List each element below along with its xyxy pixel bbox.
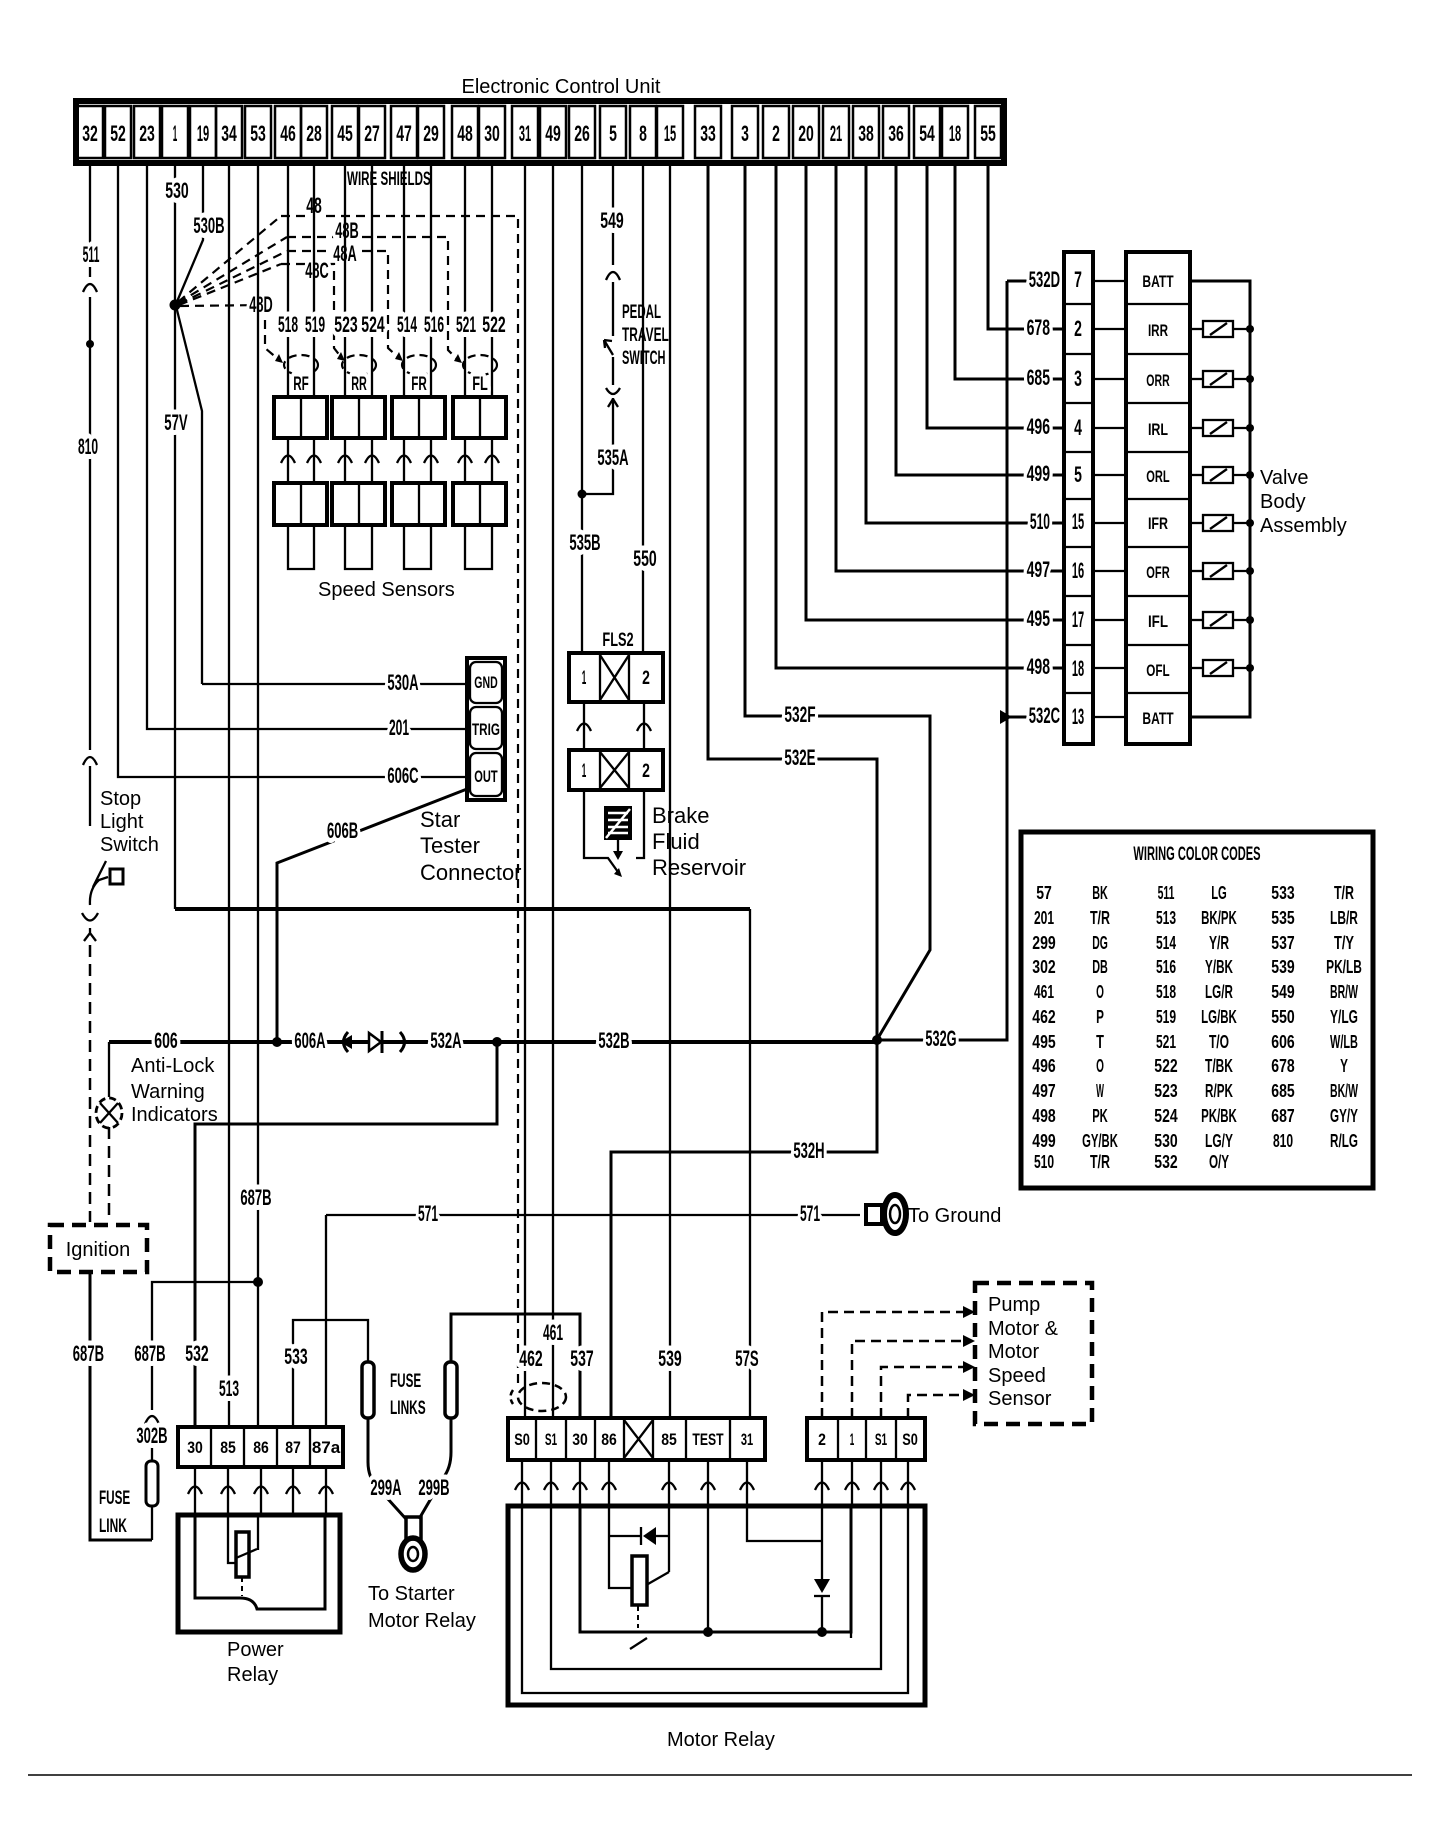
wire 533 from power relay 87 to fuse link 1	[293, 1320, 368, 1427]
svg-text:26: 26	[574, 121, 590, 146]
svg-text:FUSE: FUSE	[390, 1371, 421, 1392]
wire 85 into coil	[228, 1515, 236, 1563]
power relay internal wires with connector arrows	[188, 1467, 333, 1515]
svg-text:FLS2: FLS2	[602, 630, 633, 651]
svg-text:513: 513	[219, 1376, 239, 1401]
svg-text:549: 549	[600, 208, 623, 233]
svg-text:LG/Y: LG/Y	[1205, 1131, 1233, 1151]
svg-text:RR: RR	[351, 374, 367, 395]
svg-text:LG/BK: LG/BK	[1201, 1007, 1237, 1027]
dashed wire pump S0 to pump motor box	[908, 1395, 967, 1418]
junction dot 532G on bus	[872, 1035, 882, 1045]
dashed wire pump 2 to pump motor box	[822, 1312, 967, 1418]
svg-text:RF: RF	[293, 374, 309, 395]
shield ring FR	[402, 355, 436, 375]
shield ring on S0/S1 wires	[518, 1383, 566, 1411]
svg-text:Speed Sensors: Speed Sensors	[318, 579, 455, 601]
sensor connector RF lower	[274, 483, 327, 525]
svg-text:Electronic Control Unit: Electronic Control Unit	[462, 76, 661, 98]
svg-text:687B: 687B	[134, 1341, 165, 1366]
sensor connector FL upper	[453, 397, 506, 438]
svg-text:S0: S0	[514, 1430, 530, 1449]
svg-text:23: 23	[139, 121, 155, 146]
wire 685 from pin 18 to valve pin 3	[955, 163, 1064, 379]
junction dot diode on contact bus	[817, 1627, 827, 1637]
svg-text:532E: 532E	[784, 745, 815, 770]
svg-text:PEDAL: PEDAL	[622, 302, 661, 323]
wire 539 from pin 15 to motor relay 85	[669, 163, 671, 1418]
wire 530A branch diagonal from splice	[176, 306, 202, 684]
svg-text:R/PK: R/PK	[1205, 1081, 1233, 1101]
svg-text:516: 516	[424, 312, 444, 337]
wire 31 link to pump node	[747, 1506, 822, 1541]
fuse link F2	[445, 1362, 457, 1418]
svg-text:516: 516	[1156, 957, 1176, 977]
svg-text:IFR: IFR	[1148, 514, 1168, 533]
ECU pin cells	[77, 106, 1001, 158]
arrowhead pump 2	[963, 1306, 975, 1318]
motor relay S1 link to pump S1	[551, 1506, 881, 1669]
wire 498 from pin 2 to valve pin 18	[776, 163, 1064, 668]
coil armature	[648, 1572, 669, 1584]
svg-text:513: 513	[1156, 908, 1176, 928]
svg-text:IFL: IFL	[1148, 612, 1168, 631]
svg-text:BR/W: BR/W	[1330, 982, 1358, 1002]
svg-text:FR: FR	[411, 374, 427, 395]
svg-text:T/R: T/R	[1334, 883, 1354, 903]
svg-text:15: 15	[664, 121, 676, 146]
inline connector pair on bus	[340, 1035, 352, 1049]
svg-text:524: 524	[361, 312, 385, 337]
wire 86 into coil top	[257, 1515, 259, 1550]
svg-text:678: 678	[1271, 1056, 1294, 1076]
svg-text:687B: 687B	[73, 1341, 104, 1366]
svg-text:Indicators: Indicators	[131, 1104, 218, 1126]
shield fan dashed rays from splice	[178, 216, 287, 306]
svg-text:OFL: OFL	[1146, 661, 1169, 680]
svg-text:Y/LG: Y/LG	[1330, 1007, 1358, 1027]
star tester connector box	[467, 658, 505, 800]
svg-text:550: 550	[1271, 1007, 1294, 1027]
svg-text:3: 3	[741, 121, 749, 146]
svg-text:S0: S0	[902, 1430, 918, 1449]
table column 1	[1032, 883, 1118, 1172]
svg-text:Power: Power	[227, 1639, 284, 1661]
svg-text:31: 31	[741, 1430, 753, 1449]
532C arrow marker	[1000, 710, 1012, 724]
connector arrow on 549	[606, 272, 620, 280]
svg-text:Anti-Lock: Anti-Lock	[131, 1055, 215, 1077]
svg-text:532B: 532B	[598, 1028, 629, 1053]
wire 86 to coil	[609, 1506, 632, 1588]
svg-text:535A: 535A	[597, 445, 628, 470]
svg-text:461: 461	[543, 1320, 563, 1345]
wire 571 to power relay 87a	[325, 1215, 327, 1427]
wire 57V continues from splice	[174, 305, 176, 909]
svg-text:Body: Body	[1260, 491, 1306, 513]
532G segment of bus	[877, 717, 1007, 1040]
svg-text:4: 4	[1074, 415, 1082, 440]
svg-text:30: 30	[572, 1430, 588, 1449]
svg-text:BATT: BATT	[1142, 709, 1174, 728]
svg-text:521: 521	[1156, 1032, 1176, 1052]
power relay coil	[236, 1532, 249, 1577]
svg-text:Brake: Brake	[652, 803, 709, 828]
svg-text:Y: Y	[1340, 1056, 1348, 1076]
svg-text:15: 15	[1072, 509, 1084, 534]
speed sensor RF body	[288, 525, 314, 569]
svg-text:518: 518	[1156, 982, 1176, 1002]
shield ring FL	[463, 355, 497, 375]
svg-text:532: 532	[185, 1341, 208, 1366]
svg-text:48: 48	[457, 121, 473, 146]
wire labels 518 519 523 524 514 516 521 522	[278, 312, 506, 337]
svg-text:T: T	[1096, 1032, 1104, 1052]
svg-text:49: 49	[545, 121, 561, 146]
power relay contact path 30 to 87a	[195, 1515, 325, 1609]
svg-text:P: P	[1096, 1007, 1104, 1027]
svg-text:535: 535	[1271, 908, 1294, 928]
wire 532D vertical link	[1007, 281, 1064, 717]
motor relay coil	[632, 1556, 647, 1605]
svg-text:13: 13	[1072, 704, 1084, 729]
wire 497 from pin 21 to valve pin 16	[836, 163, 1064, 571]
svg-text:T/O: T/O	[1209, 1032, 1229, 1052]
sensor connector FL lower	[453, 483, 506, 525]
svg-text:606: 606	[1271, 1032, 1294, 1052]
table column 3	[1271, 883, 1362, 1151]
svg-text:LINKS: LINKS	[390, 1398, 426, 1419]
wire 606C from pin 52 to OUT	[118, 163, 467, 777]
X element in FLS2 upper	[600, 655, 629, 700]
wires between sensor connector rows with connector arrows	[281, 438, 499, 483]
wire 687B from ignition to fuse link	[90, 1272, 152, 1540]
coil dashed actuator to contact	[637, 1606, 639, 1628]
FLS2 switch lower box	[569, 750, 663, 790]
svg-text:1: 1	[850, 1430, 855, 1449]
svg-text:5: 5	[1074, 462, 1082, 487]
svg-text:Switch: Switch	[100, 834, 159, 856]
svg-text:BK/PK: BK/PK	[1201, 908, 1237, 928]
svg-text:18: 18	[949, 121, 961, 146]
svg-text:537: 537	[1271, 933, 1294, 953]
fuse link F3	[146, 1461, 158, 1506]
svg-text:28: 28	[306, 121, 322, 146]
svg-text:BK/W: BK/W	[1330, 1081, 1358, 1101]
FLS2 switch upper box	[569, 653, 663, 702]
svg-text:Tester: Tester	[420, 833, 480, 858]
svg-text:7: 7	[1074, 267, 1082, 292]
svg-text:530: 530	[1154, 1131, 1177, 1151]
svg-text:32: 32	[82, 121, 98, 146]
speed sensor FL body	[465, 525, 492, 569]
shield 48B dashed line to FL	[287, 237, 459, 361]
svg-text:299B: 299B	[418, 1475, 449, 1500]
svg-text:48D: 48D	[249, 292, 272, 317]
starter ring terminal	[406, 1517, 421, 1539]
svg-text:PK/BK: PK/BK	[1201, 1106, 1237, 1126]
svg-text:DG: DG	[1092, 933, 1108, 953]
svg-text:511: 511	[83, 242, 100, 267]
svg-text:Fluid: Fluid	[652, 829, 700, 854]
svg-text:537: 537	[570, 1346, 593, 1371]
sensor connector FR upper	[392, 397, 445, 438]
solenoid IRR	[1190, 321, 1254, 337]
wire 302B branch	[152, 1282, 258, 1461]
arrowhead pump 1	[963, 1335, 975, 1347]
wire 606B diagonal from OUT down to bus	[277, 789, 467, 1042]
svg-text:2: 2	[642, 761, 650, 782]
svg-text:WIRE SHIELDS: WIRE SHIELDS	[347, 169, 431, 190]
wire 496 from pin 54 to valve pin 4	[927, 163, 1064, 428]
svg-text:496: 496	[1027, 414, 1050, 439]
svg-text:299: 299	[1032, 933, 1055, 953]
svg-text:Y/R: Y/R	[1209, 933, 1229, 953]
junction dot TEST on contact bus	[703, 1627, 713, 1637]
svg-text:S1: S1	[545, 1430, 557, 1449]
svg-text:5: 5	[609, 121, 617, 146]
svg-text:496: 496	[1032, 1056, 1055, 1076]
svg-text:ORR: ORR	[1146, 371, 1169, 390]
solenoid OFL	[1190, 660, 1254, 676]
diode D1	[369, 1033, 381, 1051]
wire 532 branch from bus to power relay 30	[195, 1042, 497, 1427]
svg-text:299A: 299A	[370, 1475, 401, 1500]
brake fluid reservoir outline	[584, 790, 644, 872]
wire 532E from pin 33	[708, 163, 877, 1040]
shield 48A dashed line to FR	[287, 251, 399, 358]
svg-text:571: 571	[418, 1201, 438, 1226]
wire TEST into body	[707, 1506, 709, 1632]
svg-text:86: 86	[601, 1430, 617, 1449]
junction dot 535A/535B	[578, 490, 587, 499]
svg-text:Light: Light	[100, 811, 144, 833]
wire 499 from pin 36 to valve pin 5	[896, 163, 1064, 475]
pump motor box	[975, 1283, 1092, 1424]
svg-text:530A: 530A	[387, 670, 418, 695]
fluid level sensor symbol	[604, 806, 632, 840]
arrow connector on wire 810	[83, 757, 97, 765]
svg-text:606C: 606C	[387, 763, 418, 788]
svg-text:810: 810	[78, 434, 98, 459]
svg-text:535B: 535B	[569, 530, 600, 555]
svg-text:Sensor: Sensor	[988, 1388, 1052, 1410]
svg-text:29: 29	[423, 121, 439, 146]
wire 299A from fuse F1 to starter ring	[368, 1418, 406, 1519]
svg-text:21: 21	[830, 121, 842, 146]
ECU connector box U1	[76, 101, 1004, 163]
svg-text:511: 511	[1158, 883, 1175, 903]
svg-text:461: 461	[1034, 982, 1054, 1002]
svg-text:462: 462	[1032, 1007, 1055, 1027]
svg-text:510: 510	[1030, 509, 1050, 534]
power relay connector box	[178, 1427, 343, 1467]
svg-text:530B: 530B	[193, 213, 224, 238]
svg-text:1: 1	[582, 668, 587, 689]
svg-text:46: 46	[280, 121, 296, 146]
svg-text:549: 549	[1271, 982, 1294, 1002]
svg-text:T/BK: T/BK	[1205, 1056, 1233, 1076]
motor relay wires into body with connector arrows	[515, 1460, 754, 1506]
svg-text:S1: S1	[875, 1430, 887, 1449]
svg-text:Motor: Motor	[988, 1341, 1039, 1363]
wire 85 to armature	[668, 1506, 670, 1572]
svg-text:Motor Relay: Motor Relay	[368, 1610, 476, 1632]
wire 678 from pin 55 to valve pin 2	[988, 163, 1064, 329]
svg-text:Reservoir: Reservoir	[652, 855, 746, 880]
svg-text:Connector: Connector	[420, 860, 522, 885]
motor relay S0 link to pump S0	[522, 1506, 908, 1693]
svg-text:539: 539	[658, 1346, 681, 1371]
svg-text:533: 533	[284, 1344, 307, 1369]
svg-text:2: 2	[642, 668, 650, 689]
svg-text:532D: 532D	[1029, 267, 1060, 292]
shield ring RF	[284, 355, 318, 375]
svg-text:678: 678	[1027, 315, 1050, 340]
pump connector pin labels	[818, 1430, 918, 1449]
arrowhead pump S0	[963, 1389, 975, 1401]
svg-text:497: 497	[1032, 1081, 1055, 1101]
svg-text:O: O	[1096, 1056, 1104, 1076]
svg-text:ORL: ORL	[1146, 467, 1169, 486]
svg-text:524: 524	[1154, 1106, 1177, 1126]
valve body label column	[1126, 252, 1190, 744]
sensor connector RR lower	[332, 483, 385, 525]
arrowhead 48A	[395, 352, 403, 361]
wire 513 from pin 34 to power relay 85	[228, 163, 230, 1427]
svg-text:LINK: LINK	[99, 1516, 127, 1537]
svg-text:53: 53	[250, 121, 266, 146]
diode D3	[814, 1579, 830, 1593]
wire 299B from fuse F2 to starter ring	[419, 1418, 451, 1519]
svg-text:LG: LG	[1211, 883, 1227, 903]
svg-text:85: 85	[661, 1430, 677, 1449]
fuse link F1	[362, 1362, 374, 1418]
connector arrow on 302B	[145, 1416, 159, 1424]
wire 201 from pin 23 to TRIG	[147, 163, 467, 729]
svg-text:532F: 532F	[784, 702, 815, 727]
svg-text:FL: FL	[472, 374, 488, 395]
svg-text:523: 523	[1154, 1081, 1177, 1101]
svg-text:T/R: T/R	[1090, 1152, 1110, 1172]
svg-text:302: 302	[1032, 957, 1055, 977]
suppression diode D2	[609, 1535, 640, 1537]
svg-text:514: 514	[1156, 933, 1176, 953]
svg-text:86: 86	[253, 1438, 269, 1457]
svg-text:533: 533	[1271, 883, 1294, 903]
57V bus to motor relay 31	[175, 907, 750, 911]
solenoid OFR	[1190, 563, 1254, 579]
pump connector wires into body with connector arrows	[815, 1460, 915, 1506]
svg-text:521: 521	[456, 312, 476, 337]
svg-text:685: 685	[1027, 365, 1050, 390]
svg-text:FUSE: FUSE	[99, 1488, 130, 1509]
main 606/532 bus	[109, 1040, 877, 1044]
pump motor diode branch	[821, 1506, 823, 1632]
svg-text:BATT: BATT	[1142, 272, 1174, 291]
power relay pin labels	[187, 1438, 341, 1457]
speed sensor RR body	[345, 525, 372, 569]
svg-text:57V: 57V	[164, 410, 188, 435]
anti-lock warning lamp	[96, 1098, 122, 1128]
svg-text:27: 27	[364, 121, 380, 146]
arrowhead 48B	[454, 354, 462, 363]
svg-text:T/Y: T/Y	[1334, 933, 1354, 953]
svg-text:523: 523	[334, 312, 357, 337]
wire 550 from pin 8 to FLS2	[642, 163, 644, 653]
svg-text:47: 47	[396, 121, 412, 146]
svg-text:38: 38	[858, 121, 874, 146]
svg-text:TRIG: TRIG	[472, 720, 500, 739]
svg-text:499: 499	[1032, 1131, 1055, 1151]
sensor connector RF upper	[274, 397, 327, 438]
wire 462 from pin 31 to motor relay S0	[524, 163, 526, 1418]
ECU pin numbers	[82, 121, 996, 146]
wire 57S down to motor relay 31	[749, 909, 751, 1418]
svg-text:19: 19	[197, 121, 209, 146]
svg-text:PK: PK	[1092, 1106, 1108, 1126]
svg-text:DB: DB	[1092, 957, 1108, 977]
svg-text:Y/BK: Y/BK	[1205, 957, 1233, 977]
svg-text:O: O	[1096, 982, 1104, 1002]
svg-text:LB/R: LB/R	[1330, 908, 1358, 928]
svg-text:Valve: Valve	[1260, 467, 1309, 489]
motor relay pin labels	[514, 1430, 753, 1449]
svg-text:3: 3	[1074, 366, 1082, 391]
bottom rule	[28, 1774, 1412, 1776]
sensor connector FR lower	[392, 483, 445, 525]
speed sensor FR body	[404, 525, 431, 569]
svg-text:85: 85	[220, 1438, 236, 1457]
svg-text:W/LB: W/LB	[1330, 1032, 1358, 1052]
svg-text:17: 17	[1072, 607, 1084, 632]
svg-text:TEST: TEST	[692, 1430, 724, 1449]
svg-text:LG/R: LG/R	[1205, 982, 1233, 1002]
svg-text:518: 518	[278, 312, 298, 337]
svg-text:W: W	[1096, 1081, 1104, 1101]
ground ring terminal	[866, 1205, 882, 1224]
svg-text:2: 2	[772, 121, 780, 146]
solenoid IRL	[1190, 420, 1254, 436]
dashed wire lamp to ignition	[108, 1127, 111, 1222]
svg-text:33: 33	[700, 121, 716, 146]
wire 549 from pin 5	[582, 163, 613, 494]
svg-text:TRAVEL: TRAVEL	[622, 325, 669, 346]
svg-text:16: 16	[1072, 558, 1084, 583]
coil armature diagonal	[236, 1549, 257, 1558]
power relay body box	[178, 1515, 340, 1632]
svg-text:30: 30	[187, 1438, 203, 1457]
svg-text:1: 1	[173, 121, 178, 146]
wires between FLS2 boxes with connector arrows	[577, 702, 591, 750]
svg-text:519: 519	[1156, 1007, 1176, 1027]
ignition switch box	[50, 1225, 147, 1272]
svg-text:IRL: IRL	[1148, 420, 1168, 439]
wire 530B from pin 19 (diagonal to splice)	[176, 163, 203, 304]
valve labels	[1142, 272, 1174, 728]
solenoid IFR	[1190, 515, 1254, 531]
svg-text:522: 522	[1154, 1056, 1177, 1076]
arrowhead 48D	[275, 354, 283, 363]
svg-text:532A: 532A	[430, 1028, 461, 1053]
wire 461 from pin 49 to motor relay S1	[552, 163, 554, 1418]
svg-text:48C: 48C	[305, 258, 328, 283]
svg-text:571: 571	[800, 1201, 820, 1226]
svg-text:530: 530	[165, 178, 188, 203]
svg-text:685: 685	[1271, 1081, 1294, 1101]
dashed wire pump S1 to pump motor box	[881, 1367, 967, 1418]
svg-text:GY/BK: GY/BK	[1082, 1131, 1118, 1151]
